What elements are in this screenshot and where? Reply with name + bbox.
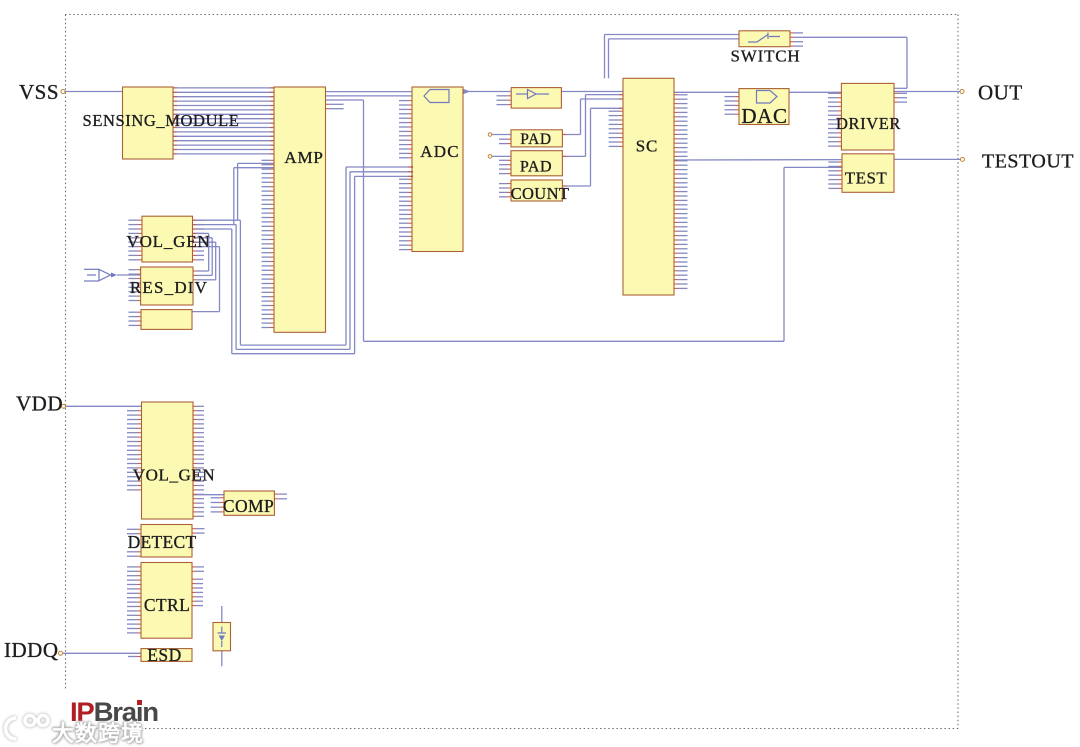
svg-text:RES_DIV: RES_DIV — [130, 278, 208, 297]
svg-text:COUNT: COUNT — [511, 184, 570, 203]
svg-text:DRIVER: DRIVER — [836, 114, 901, 133]
svg-text:CTRL: CTRL — [144, 595, 190, 615]
svg-text:TEST: TEST — [845, 168, 888, 187]
svg-text:DAC: DAC — [741, 104, 787, 128]
svg-text:SENSING_MODULE: SENSING_MODULE — [83, 111, 240, 130]
svg-text:PAD: PAD — [520, 159, 552, 176]
svg-text:OUT: OUT — [978, 81, 1023, 105]
svg-text:COMP: COMP — [223, 496, 274, 516]
svg-text:VOL_GEN: VOL_GEN — [133, 465, 216, 484]
svg-text:SC: SC — [636, 136, 658, 155]
svg-text:PAD: PAD — [520, 131, 551, 148]
svg-text:VDD: VDD — [16, 392, 63, 416]
svg-text:IDDQ: IDDQ — [4, 638, 59, 662]
svg-text:ESD: ESD — [147, 645, 182, 665]
svg-text:TESTOUT: TESTOUT — [982, 151, 1074, 173]
svg-text:SWITCH: SWITCH — [731, 46, 801, 65]
svg-text:VOL_GEN: VOL_GEN — [127, 232, 211, 251]
svg-text:VSS: VSS — [19, 80, 59, 104]
svg-text:DETECT: DETECT — [128, 532, 197, 552]
svg-text:ADC: ADC — [420, 142, 460, 161]
svg-text:AMP: AMP — [284, 148, 323, 167]
